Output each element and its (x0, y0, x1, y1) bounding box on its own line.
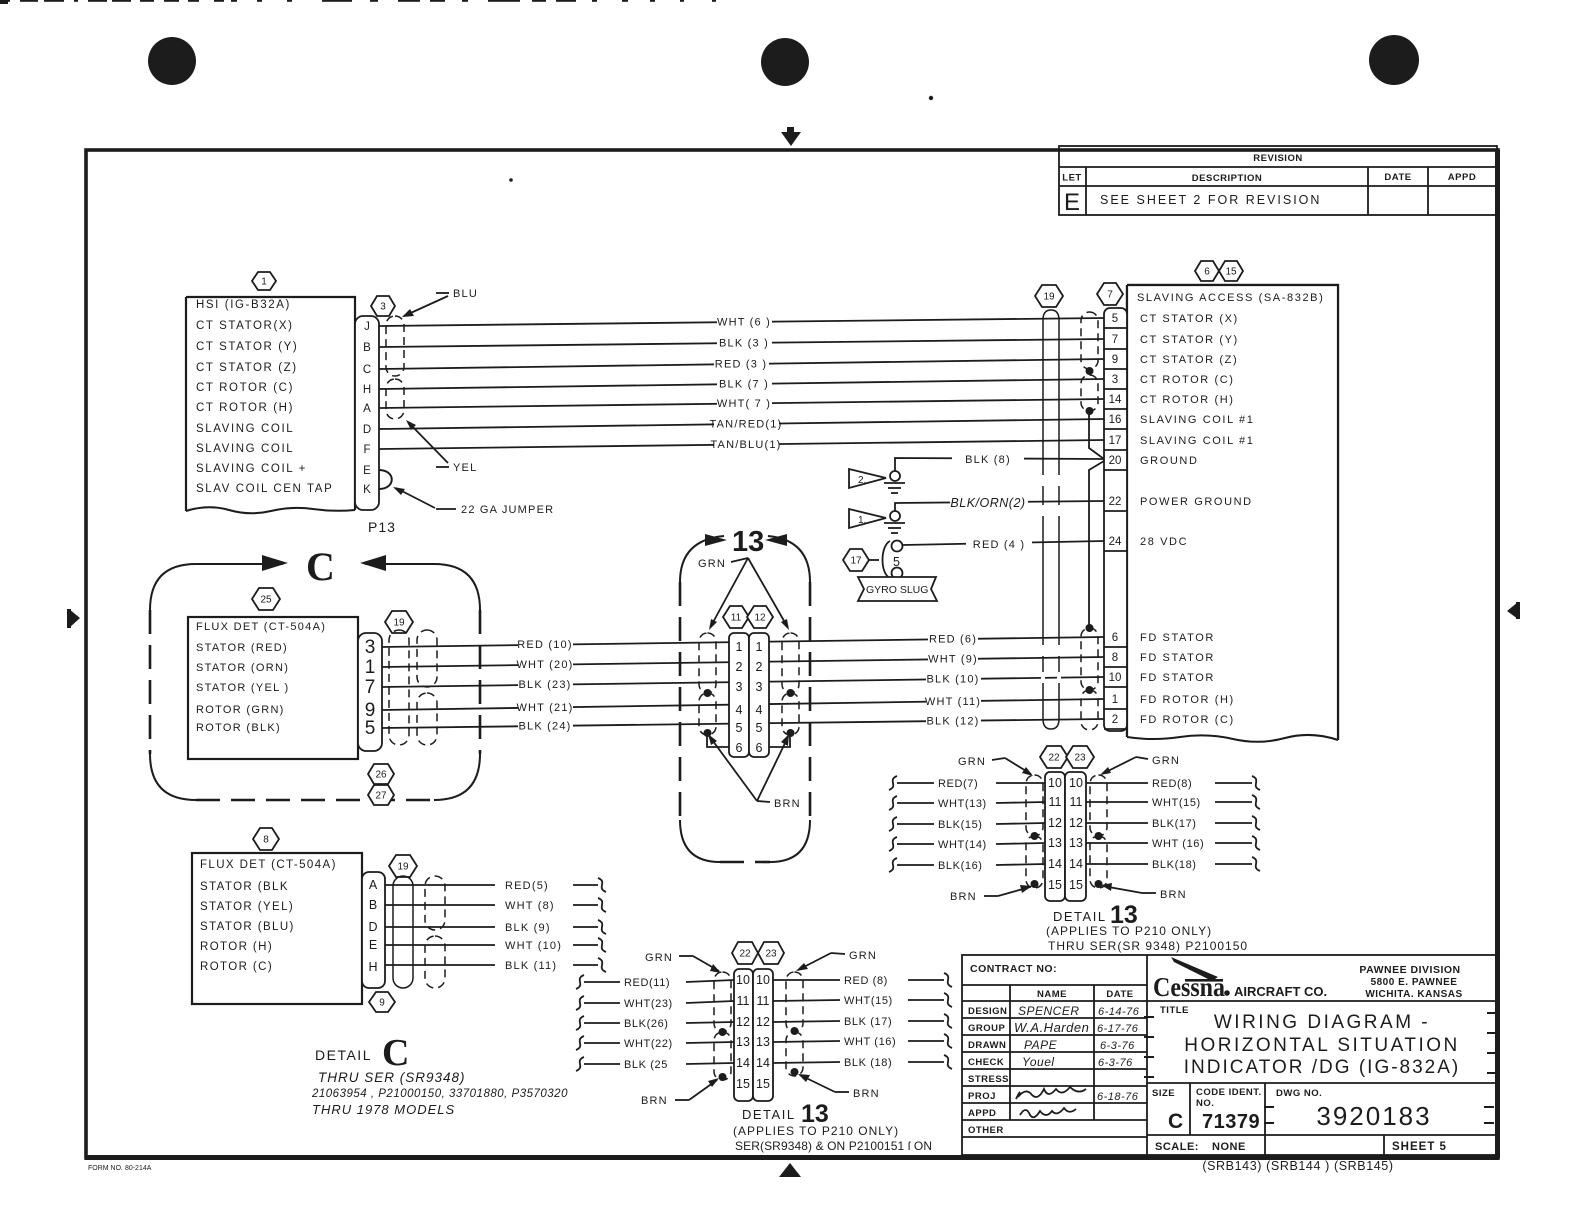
svg-text:2: 2 (756, 660, 763, 674)
balloon 26 (368, 764, 394, 784)
flux detector pin strip (358, 633, 382, 751)
svg-text:BRN: BRN (853, 1088, 880, 1100)
svg-text:5: 5 (1112, 313, 1118, 325)
svg-text:7: 7 (365, 677, 376, 698)
svg-text:14: 14 (736, 1056, 750, 1070)
shield drain to pin 20 (1089, 411, 1104, 459)
svg-text:12: 12 (1048, 816, 1062, 830)
svg-text:BLK (7 ): BLK (7 ) (719, 379, 769, 391)
svg-text:REVISION: REVISION (1253, 153, 1302, 164)
wire BLK (18) detail13 lower-mid right (773, 1055, 952, 1069)
balloon 22 mid-right (1040, 746, 1068, 768)
svg-text:RED(7): RED(7) (938, 778, 978, 790)
svg-text:24: 24 (1109, 536, 1122, 548)
svg-text:FLUX DET (CT-504A): FLUX DET (CT-504A) (200, 859, 337, 871)
scan edge marks top (4, 0, 10, 2)
svg-text:6: 6 (1112, 632, 1118, 644)
svg-text:BRN: BRN (1160, 889, 1187, 901)
wire BLK/ORN(2) to pin 22 POWER GROUND (895, 494, 1104, 511)
svg-text:DATE: DATE (1384, 172, 1411, 183)
svg-text:STATOR (ORN): STATOR (ORN) (196, 662, 289, 674)
detail 13 header arrows and number (705, 534, 727, 546)
svg-text:BLK(18): BLK(18) (1152, 859, 1197, 871)
sheet flag 1 (849, 509, 886, 528)
svg-text:SIZE: SIZE (1152, 1088, 1175, 1099)
svg-text:A: A (369, 878, 378, 892)
svg-text:2: 2 (736, 660, 743, 674)
GRN note detail 13 upper (698, 558, 789, 630)
wire BLK(26) detail13 lower-mid left (576, 1016, 734, 1030)
svg-text:J: J (364, 321, 370, 333)
balloon 8 (253, 828, 279, 850)
connector columns detail 13 lower-mid (734, 969, 753, 1101)
wire BLK(17) detail13 mid-right right (1086, 816, 1260, 830)
svg-text:F: F (363, 444, 370, 456)
svg-text:ROTOR (H): ROTOR (H) (200, 941, 273, 953)
svg-text:WHT (6 ): WHT (6 ) (717, 317, 771, 329)
svg-text:22: 22 (739, 949, 751, 960)
svg-text:WHT (9): WHT (9) (928, 654, 978, 666)
svg-text:DRAWN: DRAWN (968, 1040, 1006, 1051)
svg-text:WHT(15): WHT(15) (1152, 797, 1201, 809)
balloon 12 (747, 606, 773, 628)
svg-text:14: 14 (1048, 857, 1062, 871)
svg-text:BLK/ORN(2): BLK/ORN(2) (950, 496, 1025, 510)
svg-text:3: 3 (756, 680, 763, 694)
svg-text:4: 4 (736, 703, 743, 717)
svg-text:H: H (368, 960, 377, 974)
svg-text:16: 16 (1109, 414, 1122, 426)
svg-text:19: 19 (1043, 292, 1055, 303)
svg-text:RED (10): RED (10) (517, 639, 572, 651)
FD wire shield ovals at SA (1081, 628, 1098, 690)
svg-text:SLAVING COIL: SLAVING COIL (196, 443, 294, 455)
svg-text:STATOR (BLU): STATOR (BLU) (200, 921, 295, 933)
shield ovals detail 13 upper left (699, 633, 716, 693)
balloon 19 upper flux (385, 611, 413, 633)
svg-text:NAME: NAME (1037, 989, 1067, 1000)
svg-text:BRN: BRN (641, 1095, 668, 1107)
svg-text:DATE: DATE (1106, 989, 1133, 1000)
wire BLK(7) H-3 (379, 376, 1104, 391)
svg-text:DWG NO.: DWG NO. (1276, 1088, 1322, 1099)
note 22 GA JUMPER (393, 487, 554, 516)
svg-text:1: 1 (365, 657, 376, 678)
svg-text:BRN: BRN (950, 891, 977, 903)
svg-text:SCALE:: SCALE: (1155, 1141, 1199, 1153)
wire TAN/RED(1) D-16 (379, 416, 1104, 431)
svg-text:BLK (10): BLK (10) (926, 674, 979, 686)
svg-text:GYRO SLUG: GYRO SLUG (866, 584, 928, 596)
svg-text:D: D (363, 424, 371, 436)
svg-text:LET: LET (1062, 173, 1081, 184)
svg-text:10: 10 (756, 973, 770, 987)
flux detector box (CT-504A) lower (192, 853, 362, 1004)
svg-text:Cessna: Cessna (1153, 972, 1225, 1002)
svg-text:GRN: GRN (698, 558, 726, 570)
svg-text:5800 E. PAWNEE: 5800 E. PAWNEE (1371, 977, 1458, 988)
svg-text:3920183: 3920183 (1316, 1101, 1431, 1131)
svg-text:SLAVING COIL #1: SLAVING COIL #1 (1140, 435, 1254, 447)
svg-text:FD STATOR: FD STATOR (1140, 672, 1215, 684)
wire BLK (11) lower flux (385, 958, 606, 972)
drawing border frame (86, 150, 1498, 1158)
balloon 19 lower flux (389, 855, 417, 877)
svg-text:CT STATOR(X): CT STATOR(X) (196, 320, 294, 332)
svg-text:POWER GROUND: POWER GROUND (1140, 496, 1253, 508)
svg-text:PAPE: PAPE (1024, 1038, 1058, 1052)
svg-text:3: 3 (380, 302, 386, 313)
wire RED(4) to pin 24 28VDC (903, 536, 1104, 551)
svg-text:WHT (16): WHT (16) (1152, 838, 1204, 850)
svg-text:TITLE: TITLE (1160, 1005, 1189, 1016)
svg-text:26: 26 (375, 770, 387, 781)
svg-text:SLAVING ACCESS (SA-832B): SLAVING ACCESS (SA-832B) (1137, 292, 1324, 304)
jumper E-K (379, 470, 392, 489)
ground symbol at flag 2 (884, 471, 905, 493)
svg-text:12: 12 (756, 1015, 770, 1029)
wire BLK (9) lower flux (385, 920, 606, 934)
svg-text:WHT (10): WHT (10) (505, 940, 562, 952)
balloon 23 mid-right (1066, 746, 1094, 768)
svg-text:13: 13 (1069, 836, 1083, 850)
svg-text:SER(SR9348) & ON P2100151 ſ O: SER(SR9348) & ON P2100151 ſ ON (735, 1139, 932, 1153)
balloon 23 lower-mid (758, 942, 784, 964)
wire WHT(15) detail13 lower-mid right (773, 993, 952, 1007)
wire BLK(23)/BLK(10) 7-10 (382, 671, 1104, 692)
svg-text:2.: 2. (858, 475, 866, 486)
wire WHT(7) A-14 (379, 395, 1104, 410)
svg-text:15: 15 (756, 1077, 770, 1091)
balloon 11 (723, 606, 749, 628)
svg-text:HSI (IG-B32A): HSI (IG-B32A) (196, 299, 291, 311)
registration arrow left (69, 609, 80, 628)
svg-text:PROJ: PROJ (968, 1091, 996, 1102)
svg-text:WHT (16): WHT (16) (844, 1036, 896, 1048)
wire BLK (25 detail13 lower-mid left (576, 1057, 734, 1071)
svg-text:10: 10 (1048, 776, 1062, 790)
svg-text:BLK(16): BLK(16) (938, 860, 983, 872)
svg-text:12: 12 (1069, 816, 1083, 830)
detail 13 boundary (dashed) (680, 536, 810, 862)
svg-text:11: 11 (1070, 795, 1083, 809)
svg-text:8: 8 (263, 835, 269, 846)
registration arrow right (1507, 602, 1518, 619)
wire WHT (8) lower flux (385, 898, 606, 912)
wire WHT(13) detail13 mid-right left (889, 796, 1045, 810)
svg-text:11: 11 (757, 994, 770, 1008)
ground symbol at flag 1 (884, 511, 905, 533)
svg-text:13: 13 (732, 526, 764, 558)
svg-text:WHT (8): WHT (8) (505, 900, 555, 912)
svg-text:B: B (363, 342, 371, 354)
svg-text:14: 14 (756, 1056, 770, 1070)
svg-text:BLK (12): BLK (12) (926, 715, 979, 727)
wire BLK(15) detail13 mid-right left (889, 817, 1045, 831)
Cessna logo (1171, 957, 1218, 981)
svg-text:CT STATOR (X): CT STATOR (X) (1140, 313, 1239, 325)
svg-text:SLAVING COIL: SLAVING COIL (196, 423, 294, 435)
wire WHT(15) detail13 mid-right right (1086, 795, 1260, 809)
svg-text:BRN: BRN (774, 798, 801, 810)
wire colour note YEL (406, 420, 477, 474)
svg-text:BLK (23): BLK (23) (518, 679, 571, 691)
svg-text:RED (6): RED (6) (929, 634, 977, 646)
svg-text:BLK (3 ): BLK (3 ) (719, 338, 769, 350)
wire WHT(20)/WHT(9) 1-8 (382, 651, 1104, 672)
balloon 27 (368, 785, 394, 805)
connector columns detail 13 upper (729, 633, 749, 757)
svg-text:1.: 1. (858, 515, 866, 526)
svg-text:BLK (9): BLK (9) (505, 922, 551, 934)
wire TAN/BLU(1) F-17 (379, 436, 1104, 451)
svg-text:H: H (363, 384, 371, 396)
svg-text:6-3-76: 6-3-76 (1100, 1040, 1135, 1052)
svg-text:6-3-76: 6-3-76 (1098, 1057, 1133, 1069)
svg-text:WHT(13): WHT(13) (938, 798, 987, 810)
svg-text:5: 5 (736, 721, 743, 735)
svg-text:BLK (18): BLK (18) (844, 1057, 892, 1069)
svg-text:DESIGN: DESIGN (968, 1006, 1007, 1017)
svg-text:71379: 71379 (1202, 1111, 1260, 1133)
svg-text:WICHITA. KANSAS: WICHITA. KANSAS (1365, 989, 1462, 1000)
registration arrow top (781, 132, 801, 146)
svg-text:WHT (21): WHT (21) (516, 702, 573, 714)
svg-text:GRN: GRN (849, 950, 877, 962)
wire RED (8) detail13 lower-mid right (773, 973, 952, 987)
svg-text:1: 1 (756, 640, 763, 654)
wire WHT (16) detail13 mid-right right (1086, 836, 1260, 850)
wire BLK(24)/BLK(12) 5-2 (382, 713, 1104, 733)
svg-text:15: 15 (736, 1077, 750, 1091)
svg-text:10: 10 (1069, 776, 1083, 790)
svg-text:6-14-76: 6-14-76 (1098, 1006, 1140, 1018)
svg-text:ROTOR (C): ROTOR (C) (200, 961, 273, 973)
svg-text:STATOR (BLK: STATOR (BLK (200, 881, 289, 893)
svg-text:RED(8): RED(8) (1152, 778, 1192, 790)
svg-text:NONE: NONE (1212, 1141, 1246, 1153)
svg-text:A: A (363, 403, 371, 415)
svg-text:15: 15 (1069, 878, 1083, 892)
balloon 15 (1219, 261, 1243, 281)
APPD signature (1020, 1108, 1076, 1117)
wire BLK(8) to pin 20 GROUND (895, 450, 1104, 471)
BRN note detail 13 upper (708, 734, 801, 810)
svg-text:RED (4 ): RED (4 ) (973, 539, 1025, 551)
svg-text:(SRB143) (SRB144 ) (SRB145): (SRB143) (SRB144 ) (SRB145) (1202, 1159, 1393, 1173)
svg-text:1: 1 (736, 640, 743, 654)
svg-text:22: 22 (1048, 753, 1060, 764)
gyro slug flag box (858, 577, 937, 601)
svg-text:3: 3 (736, 680, 743, 694)
svg-text:13: 13 (1048, 836, 1062, 850)
svg-text:FD STATOR: FD STATOR (1140, 652, 1215, 664)
svg-text:22: 22 (1109, 496, 1122, 508)
svg-text:GRN: GRN (958, 756, 986, 768)
svg-text:CT ROTOR (H): CT ROTOR (H) (1140, 394, 1235, 406)
svg-text:WHT(15): WHT(15) (844, 995, 893, 1007)
shield at lower flux (left) (393, 876, 413, 988)
svg-text:OTHER: OTHER (968, 1125, 1004, 1136)
svg-text:1: 1 (1112, 694, 1118, 706)
svg-text:6: 6 (736, 741, 743, 755)
wire RED(8) detail13 mid-right right (1086, 776, 1260, 790)
svg-text:WHT( 7 ): WHT( 7 ) (717, 398, 771, 410)
svg-text:FD STATOR: FD STATOR (1140, 632, 1215, 644)
svg-text:SLAVING COIL #1: SLAVING COIL #1 (1140, 414, 1254, 426)
slaving accessory box SA-832B (1127, 285, 1338, 740)
cable shield at P13 (H,A) (386, 379, 404, 419)
shield ovals detail 13 mid-right (1026, 775, 1043, 836)
svg-text:GROUP: GROUP (968, 1023, 1006, 1034)
shield ovals detail 13 upper right (782, 633, 799, 693)
svg-text:AIRCRAFT CO.: AIRCRAFT CO. (1234, 984, 1327, 999)
svg-text:8: 8 (1112, 652, 1118, 664)
svg-text:DESCRIPTION: DESCRIPTION (1192, 173, 1262, 184)
svg-text:GROUND: GROUND (1140, 455, 1199, 467)
svg-text:CT STATOR (Z): CT STATOR (Z) (196, 362, 298, 374)
svg-text:BLK(26): BLK(26) (624, 1018, 669, 1030)
svg-text:9: 9 (379, 998, 385, 1009)
svg-text:RED(11): RED(11) (624, 977, 670, 989)
svg-text:5: 5 (365, 718, 376, 739)
svg-text:TAN/BLU(1): TAN/BLU(1) (710, 439, 781, 451)
svg-text:RED (3 ): RED (3 ) (715, 359, 767, 371)
svg-text:BLK (11): BLK (11) (505, 960, 557, 972)
svg-text:5: 5 (756, 721, 763, 735)
svg-text:STATOR (YEL ): STATOR (YEL ) (196, 682, 290, 694)
balloon 25 (252, 588, 280, 610)
svg-text:APPD: APPD (1448, 172, 1476, 183)
svg-text:C: C (363, 364, 371, 376)
svg-text:RED (8): RED (8) (844, 975, 888, 987)
svg-text:WHT (11): WHT (11) (925, 696, 981, 708)
svg-text:YEL: YEL (453, 462, 477, 474)
wire WHT (16) detail13 lower-mid right (773, 1034, 952, 1048)
svg-text:CT STATOR (Y): CT STATOR (Y) (1140, 334, 1239, 346)
svg-text:15: 15 (1048, 878, 1062, 892)
svg-text:9: 9 (1112, 354, 1118, 366)
svg-text:Youel: Youel (1022, 1055, 1055, 1069)
SA-832B pin strip (1104, 626, 1127, 628)
svg-text:WHT(14): WHT(14) (938, 839, 987, 851)
svg-text:CONTRACT NO:: CONTRACT NO: (970, 963, 1057, 975)
svg-text:GRN: GRN (1152, 755, 1180, 767)
svg-text:10: 10 (1109, 672, 1122, 684)
sheet flag 2 (849, 469, 886, 488)
svg-text:12: 12 (736, 1015, 750, 1029)
svg-text:CT ROTOR (C): CT ROTOR (C) (1140, 374, 1235, 386)
svg-text:CHECK: CHECK (968, 1057, 1004, 1068)
BRN notes lower-mid (641, 1078, 719, 1107)
svg-text:6-17-76: 6-17-76 (1097, 1023, 1139, 1035)
svg-text:BLK (24): BLK (24) (518, 721, 571, 733)
wire BLK(16) detail13 mid-right left (889, 858, 1045, 872)
wire WHT (10) lower flux (385, 938, 606, 952)
shield at upper flux pins (right pair) (417, 630, 437, 687)
svg-text:(APPLIES TO P210 ONLY): (APPLIES TO P210 ONLY) (1046, 924, 1212, 938)
svg-text:22 GA JUMPER: 22 GA JUMPER (461, 504, 554, 516)
svg-text:14: 14 (1109, 394, 1122, 406)
svg-text:APPD: APPD (968, 1108, 996, 1119)
wire WHT(6) J-5 (379, 314, 1104, 329)
main cable shield (vertical) (1043, 310, 1059, 729)
wire WHT(23) detail13 lower-mid left (576, 996, 734, 1010)
svg-text:19: 19 (393, 618, 405, 629)
svg-text:7: 7 (1107, 290, 1113, 301)
svg-text:27: 27 (375, 791, 387, 802)
svg-text:SHEET 5: SHEET 5 (1392, 1141, 1447, 1153)
svg-text:THRU SER(SR 9348) P2100150: THRU SER(SR 9348) P2100150 (1048, 939, 1248, 953)
svg-text:TAN/RED(1): TAN/RED(1) (710, 418, 783, 430)
wire RED(3) C-9 (379, 356, 1104, 371)
wire WHT(21)/WHT(11) 9-1 (382, 693, 1104, 715)
svg-text:BLK (8): BLK (8) (965, 454, 1011, 466)
wire BLK(18) detail13 mid-right right (1086, 857, 1260, 871)
PROJ signature (1016, 1087, 1086, 1099)
svg-text:FD ROTOR (C): FD ROTOR (C) (1140, 714, 1235, 726)
svg-text:K: K (363, 484, 371, 496)
svg-text:BLK (25: BLK (25 (624, 1059, 668, 1071)
balloon 3 (371, 296, 395, 316)
svg-text:3: 3 (1112, 374, 1118, 386)
svg-text:WHT(23): WHT(23) (624, 998, 673, 1010)
svg-text:13: 13 (756, 1035, 770, 1049)
flux detector lower pin strip (362, 872, 385, 988)
svg-text:11: 11 (737, 994, 750, 1008)
svg-text:CODE IDENT.: CODE IDENT. (1196, 1087, 1262, 1098)
svg-text:BLU: BLU (453, 288, 478, 300)
svg-text:PAWNEE DIVISION: PAWNEE DIVISION (1359, 964, 1460, 976)
svg-text:W.A.Harden: W.A.Harden (1014, 1020, 1089, 1035)
gyro slug terminal (869, 541, 903, 579)
svg-text:FLUX DET (CT-504A): FLUX DET (CT-504A) (196, 621, 326, 633)
cable shield at P13 (J,B,C) (386, 316, 404, 376)
svg-text:DETAIL: DETAIL (742, 1107, 796, 1122)
balloon 9 (369, 992, 395, 1012)
svg-text:B: B (369, 898, 377, 912)
svg-text:12: 12 (754, 613, 766, 624)
svg-text:BLK (17): BLK (17) (844, 1016, 892, 1028)
HSI connector pin strip P13 (355, 316, 379, 510)
svg-text:E: E (369, 938, 377, 952)
svg-text:FD ROTOR (H): FD ROTOR (H) (1140, 694, 1235, 706)
svg-text:10: 10 (736, 973, 750, 987)
svg-text:P13: P13 (368, 519, 396, 535)
svg-text:CT STATOR (Z): CT STATOR (Z) (1140, 354, 1238, 366)
balloon 1 (252, 272, 276, 290)
flux detector box (CT-504A) upper (188, 617, 358, 759)
svg-text:6: 6 (756, 741, 763, 755)
svg-text:DETAIL: DETAIL (315, 1047, 372, 1063)
svg-text:SEE SHEET 2 FOR REVISION: SEE SHEET 2 FOR REVISION (1100, 193, 1321, 207)
wire WHT(14) detail13 mid-right left (889, 837, 1045, 851)
svg-text:13: 13 (736, 1035, 750, 1049)
svg-text:17: 17 (1109, 435, 1122, 447)
wire RED(10)/RED(6) 3-6 (382, 631, 1104, 652)
svg-text:E: E (363, 465, 371, 477)
svg-text:RED(5): RED(5) (505, 880, 549, 892)
balloon 6 (1195, 261, 1219, 281)
svg-text:WHT (20): WHT (20) (516, 659, 573, 671)
svg-text:5: 5 (893, 555, 900, 569)
svg-text:NO.: NO. (1196, 1098, 1214, 1109)
punch hole left (148, 37, 196, 85)
svg-text:C: C (1168, 1110, 1183, 1133)
svg-text:FORM NO. 80-214A: FORM NO. 80-214A (88, 1165, 152, 1172)
registration arrow bottom (779, 1163, 801, 1177)
GRN notes lower-mid (645, 952, 721, 973)
